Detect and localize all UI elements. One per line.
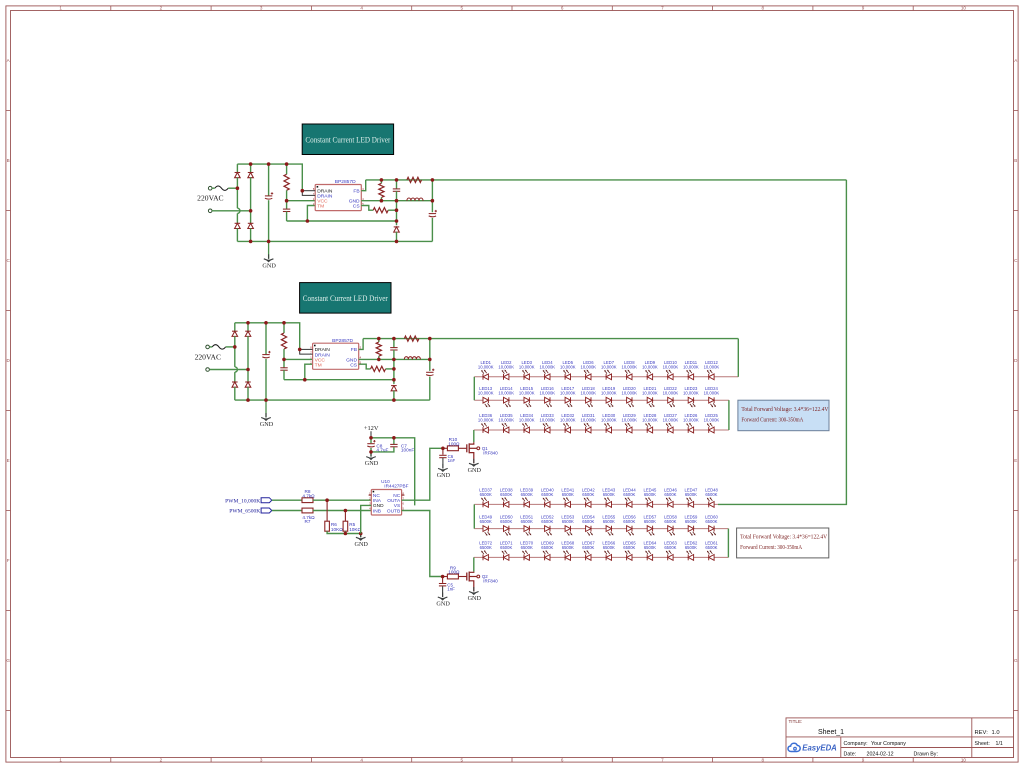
- svg-text:PWM_6500K: PWM_6500K: [229, 509, 260, 515]
- wire: [442, 458, 444, 468]
- svg-text:TITLE:: TITLE:: [789, 719, 803, 724]
- wire (driver 2): [265, 359, 267, 400]
- wire (driver 1): [396, 232, 398, 242]
- wire hop (driver 2): [235, 367, 238, 372]
- svg-text:BP2857D: BP2857D: [335, 179, 356, 185]
- svg-text:CS: CS: [350, 362, 358, 368]
- junction: [285, 162, 289, 166]
- svg-text:PWM_10,000K: PWM_10,000K: [225, 498, 260, 504]
- EasyEDA logo: [788, 743, 837, 752]
- svg-text:6500K: 6500K: [705, 519, 717, 524]
- wire TM rail (driver 1): [287, 220, 397, 222]
- wire (driver 1): [396, 180, 398, 189]
- wire bank1 to Q1: [473, 430, 475, 442]
- svg-text:6500K: 6500K: [500, 545, 512, 550]
- title block: [786, 718, 1014, 758]
- LED LED52: [541, 514, 554, 535]
- wire (driver 2): [234, 336, 236, 367]
- transistor Q2 IRF840: [467, 572, 498, 592]
- svg-text:IRF840: IRF840: [483, 579, 498, 584]
- svg-text:+12V: +12V: [364, 425, 379, 432]
- wire hop (driver 1): [237, 208, 240, 213]
- wire (driver 2): [283, 323, 285, 333]
- annotation box: Constant Current LED Driver (bottom): [300, 283, 391, 314]
- LED LED16: [539, 386, 555, 407]
- bridge diode D4 (driver 1): [248, 223, 254, 228]
- wire CS (driver 1): [361, 206, 373, 211]
- wire: [360, 534, 362, 538]
- junction: [392, 378, 396, 382]
- svg-text:6500K: 6500K: [500, 519, 512, 524]
- svg-text:10,000K: 10,000K: [498, 365, 514, 370]
- wire bank left link: [473, 377, 475, 400]
- svg-text:10,000K: 10,000K: [560, 390, 576, 395]
- svg-text:G: G: [1014, 658, 1018, 663]
- bridge diode D4 (driver 2): [245, 382, 251, 387]
- wire (driver 1): [380, 180, 382, 183]
- wire: [327, 531, 361, 533]
- feedback resistor (driver 1): [379, 183, 384, 197]
- LED LED66: [602, 541, 615, 561]
- fuse squiggle (driver 2): [212, 345, 225, 349]
- svg-text:6500K: 6500K: [562, 492, 574, 497]
- wire (driver 1): [250, 164, 252, 172]
- wire bottom rail (driver 2): [235, 399, 430, 401]
- svg-text:6500K: 6500K: [685, 492, 697, 497]
- wire (driver 1): [396, 191, 398, 225]
- svg-text:100Ω: 100Ω: [448, 442, 460, 447]
- svg-text:CS: CS: [353, 204, 361, 210]
- svg-text:6500K: 6500K: [623, 545, 635, 550]
- resistor R5: [343, 521, 361, 532]
- wire LED row 3: [474, 429, 729, 431]
- wire to bridge right (driver 1): [212, 210, 251, 212]
- svg-text:9: 9: [862, 6, 865, 11]
- wire TM (driver 2): [305, 364, 313, 380]
- LED LED68: [561, 541, 574, 561]
- svg-text:10,000K: 10,000K: [683, 390, 699, 395]
- LED LED34: [519, 413, 535, 433]
- junction: [428, 337, 432, 341]
- junction: [298, 348, 302, 352]
- svg-text:10: 10: [961, 6, 967, 11]
- junction: [236, 186, 240, 190]
- wire VCC (driver 2): [284, 358, 313, 360]
- wire (driver 1): [380, 198, 382, 201]
- svg-text:GND: GND: [373, 503, 384, 509]
- VCC capacitor (driver 1): [283, 209, 290, 211]
- LED LED67: [582, 541, 595, 561]
- svg-text:10,000K: 10,000K: [539, 365, 555, 370]
- wire: [272, 499, 302, 501]
- junction: [267, 240, 271, 244]
- junction: [392, 398, 396, 402]
- LED LED32: [560, 413, 576, 433]
- junction: [395, 199, 399, 203]
- transistor Q1 IRF840: [467, 442, 498, 463]
- capacitor C7: [390, 443, 414, 452]
- svg-text:FB: FB: [353, 189, 359, 195]
- svg-text:10,000K: 10,000K: [601, 390, 617, 395]
- svg-text:Your Company: Your Company: [871, 741, 906, 747]
- wire top rail (driver 2): [235, 323, 300, 350]
- svg-text:5: 5: [461, 757, 464, 762]
- svg-text:INA: INA: [373, 498, 382, 504]
- wire OUTB to R9: [402, 511, 443, 577]
- junction: [267, 162, 271, 166]
- wire (driver 2): [283, 370, 285, 380]
- svg-text:OUTA: OUTA: [387, 498, 401, 504]
- svg-text:NC: NC: [393, 493, 400, 499]
- net label 220VAC (driver 2): [195, 352, 221, 361]
- svg-text:1/1: 1/1: [996, 741, 1003, 747]
- junction: [392, 367, 396, 371]
- LED LED30: [601, 413, 617, 433]
- svg-text:B: B: [1014, 158, 1017, 163]
- svg-text:C: C: [7, 258, 11, 263]
- wire (driver 2): [283, 349, 285, 359]
- svg-text:10,000K: 10,000K: [601, 365, 617, 370]
- svg-text:6500K: 6500K: [644, 519, 656, 524]
- LED LED72: [479, 541, 492, 561]
- wire to bridge left (driver 1): [228, 187, 237, 189]
- LED LED60: [705, 514, 718, 535]
- svg-text:C: C: [1014, 258, 1018, 263]
- svg-text:7: 7: [661, 757, 664, 762]
- junction: [431, 178, 435, 182]
- LED LED14: [498, 386, 514, 407]
- resistor R9: [443, 565, 467, 578]
- LED LED44: [623, 488, 636, 508]
- wire bank right link: [727, 529, 729, 558]
- wire bank right link: [728, 400, 730, 430]
- LED LED53: [561, 514, 574, 535]
- LED LED51: [520, 514, 533, 535]
- junction: [306, 219, 310, 223]
- svg-text:6500K: 6500K: [521, 492, 533, 497]
- junction: [380, 178, 384, 182]
- LED LED27: [663, 413, 679, 433]
- LED LED36: [478, 413, 494, 433]
- svg-text:10,000K: 10,000K: [683, 365, 699, 370]
- wire (driver 2): [247, 323, 249, 331]
- wire (driver 1): [236, 164, 238, 172]
- wire (driver 1): [268, 200, 270, 241]
- wire (driver 2): [393, 391, 395, 401]
- wire OUTA to R10: [402, 448, 443, 500]
- svg-text:BP2857D: BP2857D: [332, 338, 353, 344]
- wire: [737, 338, 739, 340]
- annotation box: Constant Current LED Driver (top): [302, 124, 393, 155]
- wire (driver 1): [431, 218, 433, 242]
- junction: [249, 240, 253, 244]
- wire LED row 3: [474, 556, 729, 558]
- junction: [395, 178, 399, 182]
- svg-text:6500K: 6500K: [562, 545, 574, 550]
- svg-text:6500K: 6500K: [521, 519, 533, 524]
- svg-text:Total Forward Voltage: 3.4*36=: Total Forward Voltage: 3.4*36=122.4V: [740, 535, 828, 541]
- junction: [395, 219, 399, 223]
- LED LED37: [479, 488, 492, 508]
- wire (driver 2): [247, 387, 249, 400]
- wire: [344, 531, 346, 533]
- svg-text:10,000K: 10,000K: [478, 390, 494, 395]
- wire to bridge right (driver 2): [209, 369, 248, 371]
- wire: [326, 500, 328, 521]
- junction: [392, 358, 396, 362]
- LED LED21: [642, 386, 658, 407]
- wire LED row 2: [474, 399, 729, 401]
- LED LED8: [621, 360, 637, 380]
- power flag +12V: [364, 425, 379, 438]
- svg-text:R7: R7: [305, 519, 311, 524]
- svg-text:1.0: 1.0: [992, 730, 1000, 736]
- svg-text:10,000K: 10,000K: [560, 418, 576, 423]
- wire: [370, 448, 372, 457]
- svg-text:GND: GND: [262, 262, 276, 269]
- svg-text:GND: GND: [354, 541, 368, 548]
- wire (driver 2): [386, 368, 394, 370]
- svg-text:6500K: 6500K: [705, 492, 717, 497]
- LED LED45: [643, 488, 656, 508]
- svg-text:10,000K: 10,000K: [580, 365, 596, 370]
- svg-text:Constant Current LED Driver: Constant Current LED Driver: [303, 294, 388, 303]
- LED LED2: [498, 360, 514, 380]
- wire terminal L (driver 2): [209, 346, 212, 348]
- svg-text:GND: GND: [468, 595, 482, 602]
- LED LED43: [602, 488, 615, 508]
- junction: [285, 199, 289, 203]
- svg-text:6500K: 6500K: [541, 519, 553, 524]
- junction: [377, 337, 381, 341]
- svg-text:3: 3: [260, 757, 263, 762]
- freewheeling diode (driver 1): [394, 227, 400, 232]
- wire bank left link: [473, 504, 475, 528]
- svg-text:6500K: 6500K: [644, 492, 656, 497]
- svg-text:F: F: [1014, 558, 1017, 563]
- wire (driver 1): [250, 228, 252, 241]
- IC BP2857D (driver 2): [310, 338, 361, 369]
- svg-text:NC: NC: [373, 493, 380, 499]
- LED LED70: [520, 541, 533, 561]
- wire INB: [313, 510, 371, 512]
- bridge diode D1 (driver 2): [232, 331, 238, 336]
- svg-text:10,000K: 10,000K: [498, 418, 514, 423]
- wire (driver 2): [378, 356, 380, 359]
- junction: [369, 450, 373, 454]
- LED LED39: [520, 488, 533, 508]
- LED LED48: [705, 488, 718, 508]
- wire (driver 2): [265, 400, 267, 417]
- svg-text:B: B: [7, 158, 10, 163]
- resistor R6: [325, 521, 343, 532]
- svg-text:6500K: 6500K: [582, 492, 594, 497]
- wire (driver 1): [286, 201, 288, 210]
- capacitor C5: [439, 582, 455, 591]
- svg-text:INB: INB: [373, 508, 381, 514]
- wire to bridge left (driver 2): [226, 346, 235, 348]
- bridge diode D3 (driver 1): [248, 173, 254, 178]
- junction: [377, 358, 381, 362]
- junction: [246, 321, 250, 325]
- svg-text:6: 6: [561, 6, 564, 11]
- svg-text:IR4427PBF: IR4427PBF: [384, 483, 408, 488]
- svg-text:6500K: 6500K: [685, 545, 697, 550]
- svg-text:10,000K: 10,000K: [683, 418, 699, 423]
- svg-text:10,000K: 10,000K: [663, 418, 679, 423]
- svg-text:5: 5: [461, 6, 464, 11]
- bulk capacitor (driver 1): [265, 192, 273, 199]
- output resistor (driver 2): [404, 336, 419, 341]
- svg-text:10,000K: 10,000K: [642, 418, 658, 423]
- LED LED20: [621, 386, 637, 407]
- wire (driver 1): [286, 211, 288, 221]
- bridge diode D1 (driver 1): [235, 173, 241, 178]
- svg-text:10,000K: 10,000K: [519, 418, 535, 423]
- wire (driver 2): [378, 339, 380, 342]
- svg-text:10,000K: 10,000K: [704, 390, 720, 395]
- junction: [395, 240, 399, 244]
- snubber capacitor (driver 1): [393, 189, 400, 191]
- svg-text:10,000K: 10,000K: [642, 365, 658, 370]
- startup resistor (driver 1): [284, 174, 289, 190]
- svg-text:2: 2: [160, 757, 163, 762]
- svg-text:6500K: 6500K: [541, 492, 553, 497]
- wire (driver 1): [286, 164, 288, 174]
- output inductor (driver 2): [404, 357, 420, 360]
- svg-text:10,000K: 10,000K: [704, 418, 720, 423]
- junction: [264, 321, 268, 325]
- svg-text:6500K: 6500K: [664, 519, 676, 524]
- wire GND rail (driver 1): [361, 200, 432, 202]
- svg-text:GND: GND: [436, 601, 450, 608]
- svg-text:6500K: 6500K: [603, 492, 615, 497]
- svg-text:D: D: [1014, 358, 1018, 363]
- wire bank2 feed: [718, 180, 846, 505]
- wire (driver 1): [236, 228, 238, 241]
- svg-text:2024-02-12: 2024-02-12: [867, 751, 894, 757]
- svg-text:10,000K: 10,000K: [519, 390, 535, 395]
- wire (driver 2): [429, 377, 431, 401]
- fuse squiggle (driver 1): [215, 186, 228, 190]
- wire: [442, 448, 444, 454]
- wire LED row 2: [474, 528, 728, 530]
- wire (driver 2): [429, 339, 431, 371]
- junction: [282, 321, 286, 325]
- junction: [303, 378, 307, 382]
- svg-text:10,000K: 10,000K: [704, 365, 720, 370]
- svg-text:TM: TM: [317, 204, 324, 210]
- LED LED56: [623, 514, 636, 535]
- wire: [393, 438, 395, 444]
- pin wire DRAIN (driver 2): [300, 348, 313, 350]
- svg-text:Total Forward Voltage: 3.4*36=: Total Forward Voltage: 3.4*36=122.4V: [741, 407, 829, 413]
- terminal L (driver 2): [206, 345, 210, 349]
- svg-text:GND: GND: [365, 460, 379, 467]
- svg-text:1nF: 1nF: [447, 586, 455, 591]
- svg-text:Constant Current LED Driver: Constant Current LED Driver: [305, 136, 390, 145]
- svg-text:DRAIN: DRAIN: [315, 347, 331, 353]
- svg-text:6500K: 6500K: [582, 519, 594, 524]
- ground (driver 1): [262, 254, 276, 269]
- wire output rail (driver 2): [363, 338, 738, 340]
- wire LED row 1: [474, 376, 738, 378]
- wire (driver 1): [236, 213, 238, 223]
- svg-text:6500K: 6500K: [705, 545, 717, 550]
- svg-text:10,000K: 10,000K: [621, 418, 637, 423]
- svg-text:10,000K: 10,000K: [580, 418, 596, 423]
- svg-text:2: 2: [160, 6, 163, 11]
- svg-text:6500K: 6500K: [480, 492, 492, 497]
- svg-text:10,000K: 10,000K: [580, 390, 596, 395]
- svg-text:9: 9: [862, 757, 865, 762]
- LED LED7: [601, 360, 617, 380]
- ground (C5): [436, 593, 450, 608]
- LED LED1: [478, 360, 494, 380]
- svg-text:Forward Current: 300-350mA: Forward Current: 300-350mA: [740, 545, 803, 551]
- svg-text:220VAC: 220VAC: [197, 194, 223, 203]
- wire (driver 2): [393, 350, 395, 384]
- wire: [272, 510, 302, 512]
- svg-text:6500K: 6500K: [603, 519, 615, 524]
- LED LED61: [705, 541, 718, 561]
- resistor R7: [302, 508, 315, 524]
- LED LED47: [684, 488, 697, 508]
- svg-text:6: 6: [561, 757, 564, 762]
- LED LED35: [498, 413, 514, 433]
- terminal N (driver 2): [206, 368, 210, 372]
- svg-text:220VAC: 220VAC: [195, 352, 221, 361]
- wire output rail (driver 1): [366, 179, 847, 181]
- LED LED41: [561, 488, 574, 508]
- wire: [371, 447, 394, 452]
- output capacitor (driver 1): [429, 210, 437, 217]
- wire VCC (driver 1): [287, 200, 316, 202]
- ground (C8): [365, 452, 379, 467]
- svg-text:Drawn By:: Drawn By:: [914, 751, 938, 757]
- LED LED62: [684, 541, 697, 561]
- LED LED40: [541, 488, 554, 508]
- svg-text:10,000K: 10,000K: [539, 418, 555, 423]
- snubber capacitor (driver 2): [390, 348, 397, 350]
- port PWM_6500K: [229, 508, 271, 515]
- junction: [246, 398, 250, 402]
- wire LED row 1: [474, 503, 718, 505]
- svg-text:Forward Current: 300-350mA: Forward Current: 300-350mA: [741, 418, 804, 424]
- LED LED49: [479, 514, 492, 535]
- svg-text:10: 10: [961, 757, 967, 762]
- wire (driver 1): [431, 180, 433, 212]
- svg-text:E: E: [1014, 458, 1017, 463]
- wire GND rail (driver 2): [359, 358, 430, 360]
- LED LED31: [580, 413, 596, 433]
- LED LED38: [500, 488, 513, 508]
- svg-text:VS: VS: [394, 503, 400, 509]
- svg-text:Sheet_1: Sheet_1: [818, 729, 844, 736]
- wire U10 GND: [361, 505, 372, 533]
- capacitor C8: [367, 440, 388, 453]
- junction: [249, 209, 253, 213]
- LED LED55: [602, 514, 615, 535]
- LED LED64: [643, 541, 656, 561]
- wire (driver 2): [234, 372, 236, 382]
- startup resistor (driver 2): [281, 333, 286, 349]
- svg-text:GND: GND: [260, 421, 274, 428]
- junction: [282, 358, 286, 362]
- svg-text:10KΩ: 10KΩ: [349, 527, 361, 532]
- svg-text:10,000K: 10,000K: [621, 365, 637, 370]
- LED LED59: [684, 514, 697, 535]
